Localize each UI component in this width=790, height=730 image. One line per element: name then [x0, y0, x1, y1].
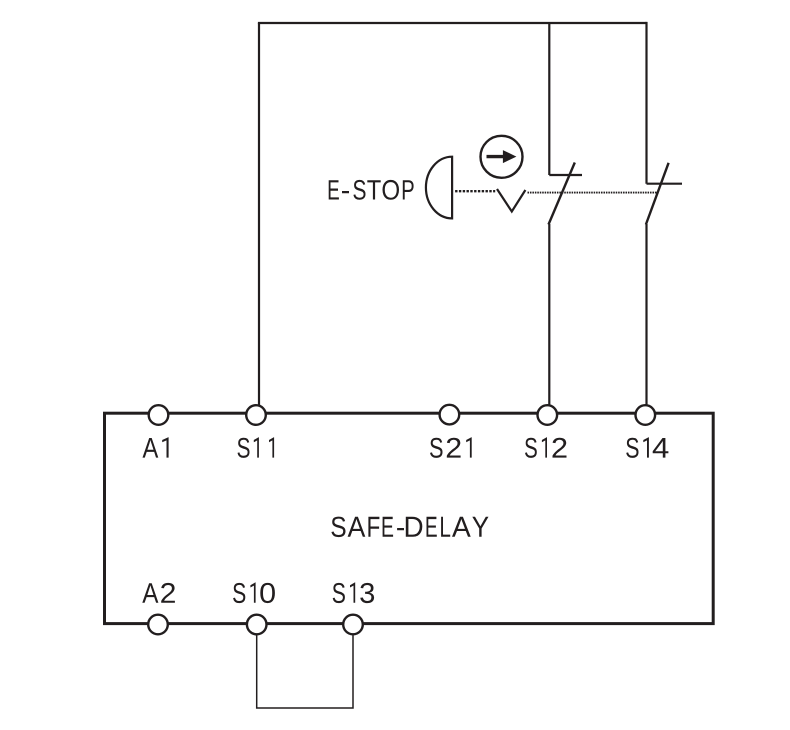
label SAFE-DELAY — [331, 517, 488, 538]
contact S14 moving blade — [646, 163, 669, 225]
wire contact 2 to S14 terminal — [645, 224, 647, 405]
wire top rail drop to contact 1 — [548, 23, 550, 175]
label S21 — [430, 437, 472, 458]
terminal A1 — [149, 405, 169, 425]
label S13 — [333, 582, 374, 603]
wire contact 1 to S12 terminal — [548, 224, 550, 405]
terminal S11 — [246, 405, 266, 425]
wire top rail horizontal — [258, 22, 647, 24]
turn-to-release arrow head — [503, 150, 517, 163]
jumper wire S10 to S13 — [257, 635, 353, 708]
wire S11 to top rail — [258, 23, 260, 405]
label A2 — [142, 583, 175, 603]
mechanical link dotted segment 2 — [528, 192, 658, 194]
terminal A2 — [148, 615, 168, 635]
contact S12 fixed bar — [549, 174, 582, 176]
latching V symbol — [497, 189, 525, 212]
label S11 — [238, 437, 275, 458]
label S14 — [626, 437, 668, 458]
wire top rail drop to contact 2 — [645, 22, 647, 184]
contact S12 moving blade — [549, 163, 575, 225]
turn-to-release arrow shaft — [487, 155, 505, 158]
terminal S12 — [538, 405, 558, 425]
label A1 — [143, 437, 169, 457]
turn-to-release symbol circle — [481, 136, 523, 178]
label S10 — [233, 582, 275, 603]
terminal S21 — [440, 405, 460, 425]
contact S14 fixed bar — [647, 183, 683, 185]
label S12 — [525, 437, 567, 458]
E-STOP mushroom button actuator — [426, 157, 452, 219]
terminal S14 — [636, 405, 656, 425]
mechanical link dotted segment 1 — [455, 190, 495, 192]
terminal S13 — [343, 615, 363, 635]
relay module box SAFE-DELAY — [105, 413, 714, 623]
terminal S10 — [247, 615, 267, 635]
label E-STOP — [329, 180, 414, 200]
